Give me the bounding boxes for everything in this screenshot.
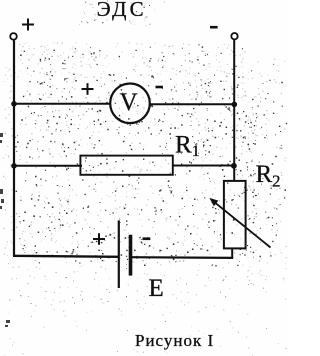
svg-text:R: R [175,132,192,159]
wire voltmeter row left [13,103,111,105]
label + (battery) [93,233,105,245]
label - (battery) [143,237,151,240]
label R2 [256,161,281,190]
svg-text:1: 1 [192,143,200,160]
caption Рисунок 1 [135,331,214,350]
label R1 [175,132,200,160]
label + (left terminal) [22,19,34,31]
label - (right terminal) [210,26,218,29]
voltmeter U1 [110,84,150,124]
terminal right [231,33,237,39]
svg-text:R: R [256,161,273,188]
wire R1 row left [13,165,82,167]
junction left R1 row [11,163,17,169]
wire R1 row right [173,165,235,167]
wire bottom right [130,256,233,259]
wire bottom left [13,255,119,258]
svg-text:V: V [120,89,138,116]
wire right vertical [233,40,235,182]
junction left voltmeter row [11,101,17,107]
label - (voltmeter) [156,86,163,89]
junction R1 right [231,163,237,169]
battery E long plate [118,220,120,288]
label ЭДС (EMF title) [97,0,147,21]
label E [149,275,164,302]
label + (voltmeter) [82,83,94,95]
wire left vertical [13,40,15,256]
battery E short plate [129,235,133,276]
terminal left [10,33,17,40]
wire R2 bottom [231,248,233,258]
svg-text:ЭДС: ЭДС [97,0,147,21]
svg-text:E: E [149,275,164,302]
junction right voltmeter row [232,102,238,108]
rheostat R2 wiper arrow [209,198,270,248]
svg-text:Рисунок I: Рисунок I [135,331,214,350]
wire voltmeter row right [150,103,235,105]
resistor R1 [80,156,172,175]
svg-text:2: 2 [272,171,281,190]
rheostat R2 body [224,181,246,249]
